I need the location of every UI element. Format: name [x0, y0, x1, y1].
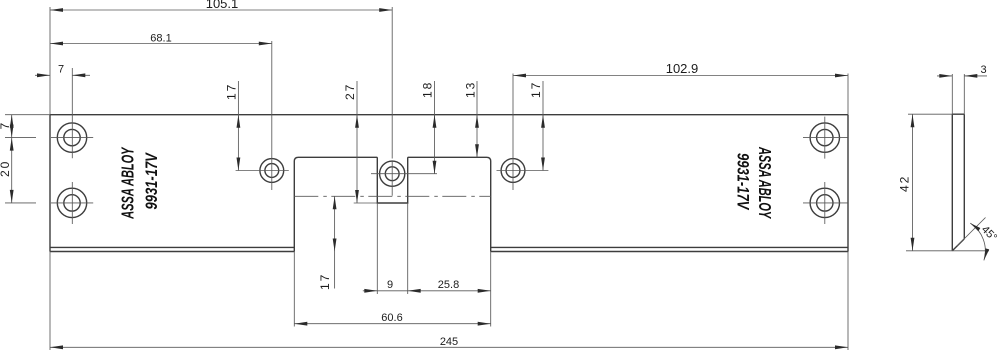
svg-text:17: 17 — [224, 83, 238, 100]
svg-text:105.1: 105.1 — [206, 0, 239, 11]
svg-text:68.1: 68.1 — [150, 33, 171, 45]
svg-text:7: 7 — [0, 121, 12, 130]
svg-text:45°: 45° — [979, 224, 999, 244]
svg-text:3: 3 — [980, 64, 986, 76]
svg-text:60.6: 60.6 — [381, 312, 402, 324]
svg-text:25.8: 25.8 — [438, 279, 459, 291]
svg-text:17: 17 — [529, 81, 543, 98]
svg-text:9931-17V: 9931-17V — [142, 151, 161, 209]
svg-text:27: 27 — [343, 83, 357, 100]
svg-text:18: 18 — [421, 81, 435, 98]
svg-text:102.9: 102.9 — [666, 61, 699, 76]
svg-text:9931-17V: 9931-17V — [733, 153, 752, 211]
svg-text:ASSA ABLOY: ASSA ABLOY — [754, 146, 773, 219]
svg-text:13: 13 — [464, 81, 478, 98]
svg-text:7: 7 — [58, 64, 64, 76]
svg-text:20: 20 — [0, 160, 12, 177]
svg-text:245: 245 — [440, 336, 458, 348]
svg-text:42: 42 — [898, 175, 912, 192]
svg-text:17: 17 — [318, 273, 332, 290]
svg-text:9: 9 — [387, 279, 393, 291]
svg-text:ASSA ABLOY: ASSA ABLOY — [119, 147, 138, 220]
